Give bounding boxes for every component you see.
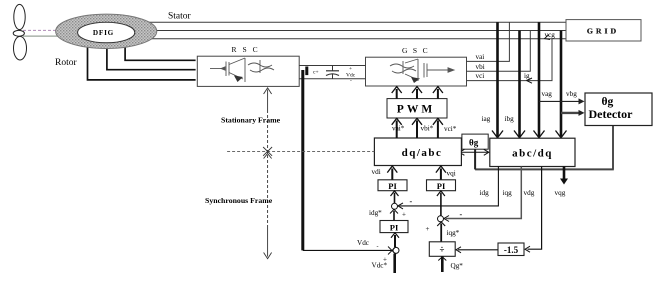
svg-text:RSC: RSC [232, 45, 264, 54]
frame separator vertical with arrows [263, 88, 272, 259]
label Vdc dc-link [346, 66, 356, 84]
svg-text:iqg*: iqg* [447, 229, 460, 237]
wire iag measurement [492, 22, 503, 138]
svg-text:PI: PI [388, 181, 397, 191]
wire vbg measurement [556, 31, 567, 138]
svg-text:vdi: vdi [372, 168, 381, 176]
dc link rail bottom [299, 78, 365, 80]
wire vbi [467, 31, 531, 72]
svg-text:Stator: Stator [168, 11, 192, 21]
wire vci* into PWM [433, 118, 443, 138]
theta-g detector block [585, 93, 652, 126]
svg-text:-: - [377, 245, 379, 251]
wire ibg measurement [514, 31, 525, 138]
label vcg with arrow [545, 31, 556, 40]
svg-text:+: + [426, 225, 430, 233]
svg-text:+: + [402, 211, 406, 219]
summing junction q-axis [437, 191, 445, 222]
wire idg* PI to junction [390, 209, 398, 220]
wire rotor phase 1 [88, 40, 196, 80]
wire stator phase a [120, 21, 566, 23]
svg-text:Vdc: Vdc [357, 239, 369, 247]
wire vai* into PWM [392, 118, 402, 138]
wire vag measurement [534, 22, 545, 138]
wire iqg* divider to junction [437, 222, 445, 242]
wire vdi into dq/abc [387, 166, 397, 180]
svg-text:vci: vci [476, 72, 485, 80]
dq/abc block [374, 138, 461, 166]
wire PWM to GSC c [433, 87, 443, 99]
wire idg feedback [398, 167, 499, 209]
theta-g double arrow [459, 149, 488, 155]
wire theta-g from detector [475, 126, 614, 170]
wire vbi* into PWM [412, 118, 422, 138]
svg-text:dq/abc: dq/abc [402, 147, 443, 159]
svg-text:PI: PI [437, 181, 446, 191]
dc link capacitor [326, 66, 339, 79]
wire vqg output [560, 167, 568, 185]
wire gain to divider [456, 247, 498, 253]
PI block q-axis [427, 180, 456, 191]
DFIG machine [56, 14, 157, 48]
gain block -1.5 [498, 243, 524, 256]
svg-text:iqg: iqg [503, 189, 513, 197]
svg-text:vdg: vdg [524, 189, 535, 197]
svg-text:vbg: vbg [566, 90, 577, 98]
svg-text:vqi: vqi [447, 170, 456, 178]
svg-text:vai: vai [476, 53, 485, 61]
abc/dq block [490, 138, 575, 166]
svg-text:vbi: vbi [476, 63, 485, 71]
wire vag to detector [539, 98, 585, 104]
turbine shaft [23, 30, 58, 36]
wire stator phase b [120, 30, 566, 32]
svg-text:÷: ÷ [440, 245, 445, 255]
dc link sense bracket [305, 67, 308, 76]
GRID block [566, 20, 641, 41]
GSC IGBT symbol [390, 59, 454, 83]
wire rotor phase 3 [125, 40, 196, 60]
wire stator phase c [120, 38, 566, 40]
svg-text:idg*: idg* [369, 209, 382, 217]
svg-text:Vdc*: Vdc* [372, 262, 388, 270]
svg-text:PI: PI [390, 223, 399, 233]
svg-text:c+: c+ [313, 70, 319, 76]
wire vbg to detector [561, 110, 585, 116]
wire vdg feedback [525, 167, 542, 253]
dc link rail top [299, 65, 365, 67]
wind turbine blades [13, 4, 26, 60]
svg-text:Synchronous Frame: Synchronous Frame [205, 196, 273, 205]
label ig current arrow [524, 72, 532, 83]
wire vqi into dq/abc [436, 166, 446, 180]
PI block Vdc loop [380, 221, 408, 233]
svg-text:-: - [350, 78, 352, 84]
wire Qg* reference [438, 256, 446, 272]
converter RSC [197, 45, 299, 86]
wire PWM to GSC a [392, 87, 402, 99]
svg-text:Qg*: Qg* [451, 262, 464, 270]
svg-text:vqg: vqg [555, 189, 566, 197]
svg-text:vbi*: vbi* [421, 125, 434, 133]
wire iqg feedback [444, 167, 521, 222]
svg-text:+: + [349, 66, 352, 72]
converter GSC [366, 46, 467, 86]
theta-g box [462, 134, 488, 149]
PI block d-axis [378, 180, 407, 191]
svg-text:iag: iag [482, 115, 491, 123]
svg-text:vcg: vcg [545, 31, 556, 39]
svg-text:GSC: GSC [402, 46, 433, 55]
svg-text:idg: idg [480, 189, 490, 197]
frame separator horizontal [227, 150, 374, 152]
wire vci [467, 39, 553, 81]
wire Vdc sense [303, 70, 396, 255]
svg-text:-1.5: -1.5 [504, 245, 519, 255]
PWM block [387, 99, 447, 118]
svg-text:Detector: Detector [589, 107, 634, 121]
svg-text:PWM: PWM [397, 103, 435, 115]
summing junction Vdc [391, 233, 399, 254]
wire rotor phase 2 [107, 40, 196, 70]
wire PWM to GSC b [412, 87, 422, 99]
svg-text:Rotor: Rotor [55, 58, 77, 68]
RSC IGBT symbol [210, 58, 274, 82]
summing junction d-axis [391, 191, 399, 209]
svg-text:Stationary Frame: Stationary Frame [221, 116, 281, 125]
wire Vdc* reference [393, 254, 396, 273]
svg-text:vag: vag [542, 90, 553, 98]
svg-text:-: - [460, 210, 463, 219]
svg-text:vai*: vai* [392, 125, 405, 133]
svg-text:θg: θg [469, 138, 479, 148]
svg-text:GRID: GRID [587, 26, 619, 35]
svg-text:DFIG: DFIG [93, 29, 114, 37]
svg-text:abc/dq: abc/dq [512, 147, 553, 159]
divider block [429, 242, 455, 256]
svg-text:vci*: vci* [444, 125, 457, 133]
svg-text:ibg: ibg [505, 115, 515, 123]
wire vai [467, 22, 510, 61]
svg-text:-: - [410, 197, 413, 206]
